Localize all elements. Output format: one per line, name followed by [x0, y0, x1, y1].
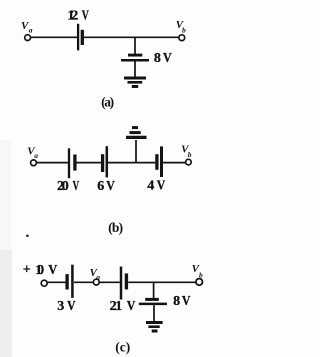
svg-text:12: 12 — [67, 9, 78, 24]
svg-text:V: V — [163, 49, 172, 65]
svg-text:V: V — [73, 177, 80, 194]
svg-text:V: V — [67, 298, 76, 313]
svg-text:b: b — [199, 270, 203, 279]
svg-text:(a): (a) — [101, 95, 114, 110]
svg-text:+: + — [23, 263, 31, 278]
svg-text:3: 3 — [57, 299, 64, 314]
svg-text:6: 6 — [97, 179, 104, 194]
svg-text:10: 10 — [35, 263, 44, 278]
svg-text:V: V — [106, 177, 115, 193]
svg-text:21: 21 — [110, 299, 123, 314]
svg-text:V: V — [157, 177, 166, 193]
svg-text:8: 8 — [173, 294, 180, 309]
svg-text:a: a — [34, 151, 38, 160]
svg-text:a: a — [96, 272, 100, 281]
svg-text:20: 20 — [57, 179, 69, 194]
svg-text:a: a — [29, 25, 33, 34]
svg-text:b: b — [188, 150, 192, 159]
svg-text:V: V — [182, 292, 191, 308]
svg-text:(c): (c) — [115, 339, 130, 354]
svg-text:8: 8 — [154, 51, 161, 66]
svg-text:(b): (b) — [108, 220, 123, 235]
svg-text:V: V — [127, 297, 136, 313]
svg-text:V: V — [82, 7, 89, 23]
svg-text:V: V — [48, 261, 57, 277]
svg-text:b: b — [182, 25, 186, 34]
svg-text:4: 4 — [147, 179, 154, 194]
